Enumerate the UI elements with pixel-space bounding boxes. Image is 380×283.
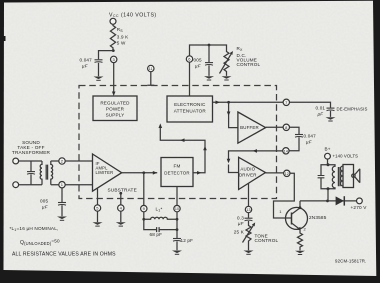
svg-text:ALL RESISTANCE VALUES ARE IN O: ALL RESISTANCE VALUES ARE IN OHMS xyxy=(12,251,116,257)
svg-text:B+: B+ xyxy=(325,146,331,151)
svg-text:µF: µF xyxy=(238,221,244,226)
svg-text:TRANSFORMER: TRANSFORMER xyxy=(12,150,51,155)
svg-text:0.01: 0.01 xyxy=(316,105,326,110)
svg-text:ELECTRONIC: ELECTRONIC xyxy=(174,102,206,107)
svg-text:0.3: 0.3 xyxy=(237,215,244,220)
svg-text:AUDIO: AUDIO xyxy=(240,167,255,172)
svg-text:2N3585: 2N3585 xyxy=(309,215,327,220)
svg-text:12: 12 xyxy=(285,172,289,176)
svg-text:µF: µF xyxy=(82,63,88,68)
svg-text:+270 V: +270 V xyxy=(351,205,368,210)
svg-text:µF: µF xyxy=(42,204,48,209)
svg-text:11: 11 xyxy=(149,67,153,71)
svg-text:POWER: POWER xyxy=(106,107,125,112)
svg-text:µF: µF xyxy=(195,63,201,68)
svg-text:0.047: 0.047 xyxy=(304,133,317,138)
svg-text:+140 VOLTS: +140 VOLTS xyxy=(333,154,359,159)
svg-text:13: 13 xyxy=(246,208,250,212)
svg-text:SUBSTRATE: SUBSTRATE xyxy=(108,187,137,192)
svg-text:68 pF: 68 pF xyxy=(150,232,163,237)
svg-text:µF: µF xyxy=(306,140,312,145)
svg-text:ATTENUATOR: ATTENUATOR xyxy=(174,109,207,114)
svg-text:SUPPLY: SUPPLY xyxy=(106,113,125,118)
svg-text:CONTROL: CONTROL xyxy=(255,238,279,243)
svg-text:VCC (140 VOLTS): VCC (140 VOLTS) xyxy=(109,12,157,18)
svg-text:0.047: 0.047 xyxy=(80,58,93,63)
svg-text:14: 14 xyxy=(284,149,288,153)
svg-text:CONTROL: CONTROL xyxy=(237,62,261,67)
svg-text:REGULATED: REGULATED xyxy=(100,101,130,106)
svg-text:005: 005 xyxy=(194,57,202,62)
svg-text:3.9 K: 3.9 K xyxy=(117,35,129,40)
svg-text:10: 10 xyxy=(175,207,179,211)
svg-text:DE-EMPHASIS: DE-EMPHASIS xyxy=(337,107,368,112)
svg-text:DETECTOR: DETECTOR xyxy=(164,170,190,175)
svg-text:BUFFER: BUFFER xyxy=(240,125,259,130)
svg-text:DRIVER: DRIVER xyxy=(239,172,257,177)
svg-text:92CM-15817R.: 92CM-15817R. xyxy=(335,259,366,264)
svg-text:12 pF: 12 pF xyxy=(181,238,194,243)
svg-text:5 W: 5 W xyxy=(117,41,126,46)
svg-text:LIMITER: LIMITER xyxy=(96,170,114,175)
svg-text:25 K: 25 K xyxy=(234,229,245,234)
svg-text:005: 005 xyxy=(40,198,48,203)
svg-text:µF: µF xyxy=(318,111,324,116)
svg-text:FM: FM xyxy=(174,164,181,169)
